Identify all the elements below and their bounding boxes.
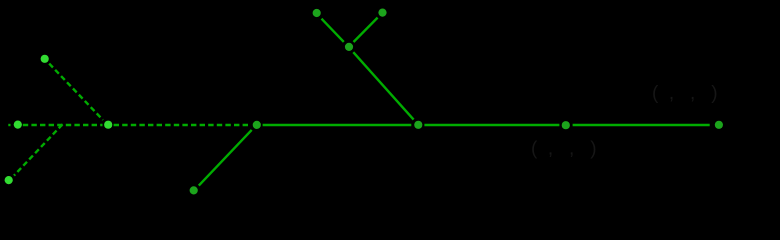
svg-text:(8, 8, 8): (8, 8, 8) <box>531 138 597 159</box>
svg-text:(8, 8, 8): (8, 8, 8) <box>652 83 718 104</box>
